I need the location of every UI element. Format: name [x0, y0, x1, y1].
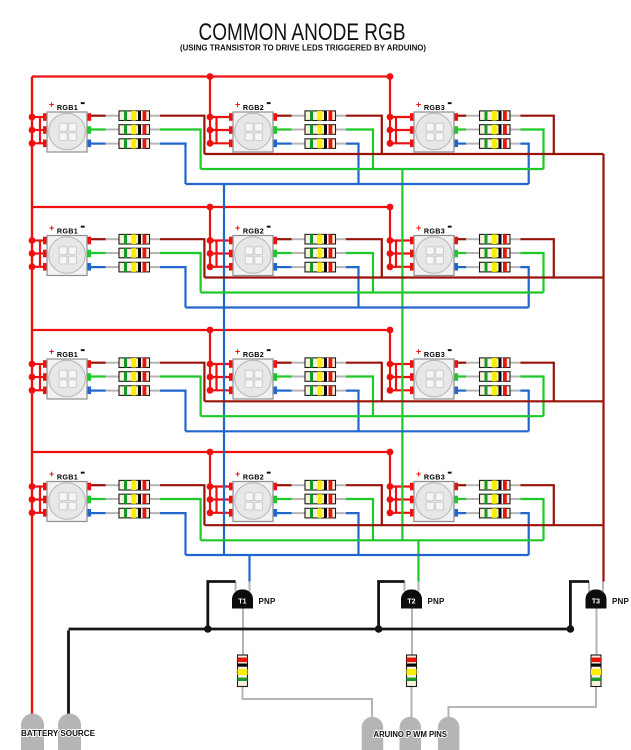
RGB LED module RGB1 (row 4): [43, 482, 91, 522]
RGB LED module RGB3 (row 1): [410, 112, 458, 152]
transistor T2 leads: [405, 582, 419, 656]
transistor T2 (PNP) body: [401, 589, 422, 608]
svg-text:RGB1: RGB1: [57, 226, 78, 235]
RGB LED module RGB1 (row 2): [43, 236, 91, 276]
wire: row 4 RGB1 blue-channel to bus: [160, 513, 186, 555]
wire: T2 base lead to arduino pad 2: [411, 687, 413, 719]
svg-text:+: +: [235, 100, 240, 110]
wire: T1 base lead to arduino pad 1: [243, 687, 373, 719]
RGB LED module RGB3 (row 2): [410, 236, 458, 276]
svg-text:+: +: [49, 469, 54, 479]
wire: row 1 RGB1 green-channel to bus: [160, 130, 201, 170]
wire: row 1 RGB2 green-channel to bus: [346, 130, 374, 170]
junction dots row 3 RGB1 anode: [29, 361, 36, 394]
wire: row 2 RGB3 red feed vertical: [389, 207, 391, 267]
wire: row 1 RGB3 anode pin connectors: [390, 116, 411, 118]
resistor R (red channel) row 2 RGB2: [277, 234, 346, 244]
wire: row 4 RGB1 anode pin connectors: [32, 485, 44, 487]
wire: row 4 red-channel bus: [204, 524, 603, 526]
svg-text:RGB1: RGB1: [57, 103, 78, 112]
RGB LED module RGB2 (row 2): [229, 236, 277, 276]
junction dot row 2 feed at RGB2: [207, 204, 214, 211]
svg-text:RGB3: RGB3: [424, 350, 445, 359]
svg-text:RGB3: RGB3: [424, 472, 445, 481]
resistor B (blue channel) row 3 RGB3: [458, 386, 521, 396]
label - minus marker RGB1 row 1: [81, 102, 85, 104]
svg-text:+: +: [416, 223, 421, 233]
wire: row 3 RGB2 blue-channel to bus: [346, 391, 359, 432]
resistor B (blue channel) row 3 RGB2: [277, 386, 346, 396]
wire: row 2 RGB3 blue-channel to bus: [520, 267, 529, 307]
wire: row 1 RGB2 blue-channel to bus: [346, 144, 359, 184]
wire: row 2 RGB2 red feed vertical: [209, 207, 211, 267]
resistor G (green channel) row 3 RGB1: [91, 372, 160, 382]
label - minus marker RGB1 row 2: [81, 226, 85, 228]
wire: row 1 RGB2 anode pin connectors: [210, 116, 230, 118]
wire: battery ground riser: [67, 630, 70, 716]
wire: row 4 RGB2 red feed vertical: [209, 452, 211, 513]
resistor G (green channel) row 2 RGB2: [277, 248, 346, 258]
junction dot row 2 feed at RGB3: [387, 204, 394, 211]
wire: row 4 RGB3 red-channel (maroon) to bus: [520, 485, 554, 525]
wire: row 3 RGB2 green-channel to bus: [346, 377, 374, 417]
wire: row 4 RGB1 green-channel to bus: [160, 499, 201, 540]
svg-text:+: +: [416, 469, 421, 479]
resistor B (blue channel) row 1 RGB1: [91, 139, 160, 149]
resistor R4 (T1 base) vertical: [238, 655, 248, 687]
resistor R (red channel) row 2 RGB1: [91, 234, 160, 244]
wire: row 2 red feed line: [32, 206, 390, 208]
wire: row 3 RGB1 anode pin connectors: [32, 363, 44, 365]
junction dot row 1 feed at RGB2: [207, 73, 214, 80]
junction dot row 3 feed at RGB3: [387, 327, 394, 334]
wire: row 1 RGB1 blue-channel to bus: [160, 144, 186, 184]
svg-text:T1: T1: [238, 599, 246, 606]
resistor G (green channel) row 3 RGB2: [277, 372, 346, 382]
junction dots row 2 RGB2 anode: [207, 237, 214, 270]
wire: row 3 RGB3 anode pin connectors: [390, 363, 411, 365]
wire: row 2 RGB1 anode ladder: [39, 241, 41, 267]
svg-text:+: +: [416, 100, 421, 110]
junction dot T2 emitter on bus: [375, 625, 383, 633]
wire: red channel main vertical (right side) to T3: [602, 154, 604, 582]
wire: row 1 red feed line: [32, 75, 390, 77]
wire: row 2 RGB1 anode pin connectors: [32, 239, 44, 241]
resistor G (green channel) row 4 RGB2: [277, 494, 346, 504]
wire: row 3 RGB3 red-channel (maroon) to bus: [520, 363, 554, 402]
resistor B (blue channel) row 2 RGB1: [91, 262, 160, 272]
wire: row 2 RGB3 anode ladder: [395, 241, 397, 267]
label - minus marker RGB1 row 3: [81, 349, 85, 351]
RGB LED module RGB1 (row 3): [43, 359, 91, 399]
wire: row 3 RGB2 anode ladder: [215, 364, 217, 390]
wire: row 2 RGB2 green-channel to bus: [346, 253, 374, 293]
resistor B (blue channel) row 4 RGB2: [277, 508, 346, 518]
wire: T2 emitter to ground bus: [379, 582, 405, 630]
wire: row 1 RGB2 red-channel (maroon) to bus: [346, 116, 382, 154]
wire: row 4 RGB3 anode ladder: [395, 487, 397, 513]
wire: row 3 green-channel bus: [201, 415, 544, 417]
svg-text:RGB3: RGB3: [424, 226, 445, 235]
battery source pad -: [58, 714, 81, 750]
svg-text:PNP: PNP: [259, 597, 277, 606]
wire: row 2 green-channel bus: [201, 291, 544, 293]
wire: row 3 RGB3 red feed vertical: [389, 330, 391, 390]
battery source pad +: [21, 714, 44, 750]
resistor R (red channel) row 1 RGB2: [277, 111, 346, 121]
resistor R (red channel) row 3 RGB2: [277, 358, 346, 368]
svg-text:RGB1: RGB1: [57, 472, 78, 481]
resistor R6 (T3 base) vertical: [591, 655, 601, 687]
wire: T3 base lead to arduino pad 3: [449, 687, 597, 719]
transistor T3 (PNP) body: [586, 589, 607, 608]
wire: row 4 RGB3 red feed vertical: [389, 452, 391, 513]
svg-text:+: +: [49, 223, 54, 233]
svg-text:RGB2: RGB2: [243, 350, 264, 359]
wire: row 2 RGB2 red-channel (maroon) to bus: [346, 239, 382, 277]
wire: row 3 RGB1 green-channel to bus: [160, 377, 201, 417]
svg-text:PNP: PNP: [428, 597, 446, 606]
resistor B (blue channel) row 4 RGB1: [91, 508, 160, 518]
wire: green channel drop into T2: [417, 540, 419, 581]
RGB LED module RGB2 (row 4): [229, 482, 277, 522]
wire: row 4 RGB2 blue-channel to bus: [346, 513, 359, 555]
wire: row 1 RGB1 anode pin connectors: [32, 116, 44, 118]
wire: row 3 RGB1 red-channel (maroon) to bus: [160, 363, 205, 402]
resistor R (red channel) row 3 RGB3: [458, 358, 521, 368]
junction dots row 3 RGB3 anode: [387, 361, 394, 394]
resistor B (blue channel) row 2 RGB3: [458, 262, 521, 272]
wire: row 3 RGB2 red feed vertical: [209, 330, 211, 390]
wire: row 2 RGB1 red-channel (maroon) to bus: [160, 239, 205, 277]
wire: black ground bus: [69, 628, 571, 631]
junction dots row 4 RGB1 anode: [29, 483, 36, 516]
wire: row 1 RGB2 red feed vertical: [209, 77, 211, 144]
svg-text:(USING TRANSISTOR TO DRIVE LED: (USING TRANSISTOR TO DRIVE LEDS TRIGGERE…: [180, 44, 426, 53]
resistor G (green channel) row 1 RGB1: [91, 125, 160, 135]
wire: row 2 red-channel bus: [204, 276, 603, 278]
wire: row 3 RGB1 anode ladder: [39, 364, 41, 390]
RGB LED module RGB2 (row 3): [229, 359, 277, 399]
svg-text:RGB2: RGB2: [243, 226, 264, 235]
wire: row 4 RGB2 anode pin connectors: [210, 485, 230, 487]
resistor R (red channel) row 3 RGB1: [91, 358, 160, 368]
resistor R5 (T2 base) vertical: [407, 655, 417, 687]
svg-text:COMMON ANODE RGB: COMMON ANODE RGB: [199, 19, 406, 46]
junction dots row 2 RGB3 anode: [387, 237, 394, 270]
wire: row 2 RGB1 blue-channel to bus: [160, 267, 186, 307]
junction dot T1 emitter on bus: [204, 625, 212, 633]
wire: row 4 RGB1 anode ladder: [39, 487, 41, 513]
wire: row 4 RGB3 anode pin connectors: [390, 485, 411, 487]
junction dots row 1 RGB2 anode: [207, 114, 214, 147]
resistor G (green channel) row 3 RGB3: [458, 372, 521, 382]
wire: blue channel main vertical to T1: [223, 184, 225, 555]
resistor B (blue channel) row 1 RGB2: [277, 139, 346, 149]
junction dot T3 emitter on bus: [567, 625, 575, 633]
transistor T1 leads: [236, 582, 250, 656]
junction dot row 3 feed at RGB2: [207, 327, 214, 334]
wire: T3 emitter to ground bus: [570, 582, 589, 630]
wire: row 1 RGB2 anode ladder: [215, 117, 217, 143]
label - minus marker RGB3 row 2: [448, 226, 452, 228]
arduino pwm pad 3: [438, 717, 460, 750]
RGB LED module RGB3 (row 3): [410, 359, 458, 399]
wire: row 3 RGB2 red-channel (maroon) to bus: [346, 363, 382, 402]
wire: row 2 RGB2 anode ladder: [215, 241, 217, 267]
svg-text:RGB2: RGB2: [243, 472, 264, 481]
resistor G (green channel) row 4 RGB1: [91, 494, 160, 504]
wire: row 1 RGB3 red-channel (maroon) to bus: [520, 116, 554, 154]
junction dots row 1 RGB1 anode: [29, 114, 36, 147]
resistor B (blue channel) row 2 RGB2: [277, 262, 346, 272]
resistor B (blue channel) row 1 RGB3: [458, 139, 521, 149]
wire: row 1 RGB3 anode ladder: [395, 117, 397, 143]
wire: row 3 RGB2 anode pin connectors: [210, 363, 230, 365]
label - minus marker RGB2 row 3: [267, 349, 271, 351]
wire: row 4 RGB3 green-channel to bus: [520, 499, 544, 540]
resistor R (red channel) row 2 RGB3: [458, 234, 521, 244]
wire: row 4 RGB1 red-channel (maroon) to bus: [160, 485, 205, 525]
resistor G (green channel) row 1 RGB2: [277, 125, 346, 135]
junction dots row 2 RGB1 anode: [29, 237, 36, 270]
RGB LED module RGB3 (row 4): [410, 482, 458, 522]
svg-text:BATTERY SOURCE: BATTERY SOURCE: [21, 729, 96, 738]
arduino pwm pad 1: [362, 717, 384, 750]
svg-text:+: +: [235, 469, 240, 479]
wire: row 3 RGB3 green-channel to bus: [520, 377, 544, 417]
wire: row 3 red-channel bus: [204, 400, 603, 402]
wire: row 3 blue-channel bus: [186, 430, 529, 432]
svg-text:+: +: [49, 100, 54, 110]
wire: row 2 RGB3 anode pin connectors: [390, 239, 411, 241]
wire: green channel main vertical to T2: [401, 169, 403, 540]
wire: row 1 blue-channel bus: [186, 183, 529, 185]
resistor R (red channel) row 4 RGB1: [91, 480, 160, 490]
wire: +V red bus from battery source up left side: [31, 77, 33, 717]
svg-text:+: +: [235, 223, 240, 233]
wire: T1 emitter to ground bus: [208, 582, 236, 630]
RGB LED module RGB1 (row 1): [43, 112, 91, 152]
wire: row 1 RGB1 anode ladder: [39, 117, 41, 143]
svg-text:+: +: [235, 347, 240, 357]
svg-text:+: +: [416, 347, 421, 357]
label - minus marker RGB2 row 2: [267, 226, 271, 228]
wire: blue channel drop into T1: [248, 555, 250, 582]
svg-text:RGB3: RGB3: [424, 103, 445, 112]
svg-text:RGB2: RGB2: [243, 103, 264, 112]
wire: row 1 RGB3 green-channel to bus: [520, 130, 544, 170]
junction dots row 4 RGB2 anode: [207, 483, 214, 516]
resistor B (blue channel) row 4 RGB3: [458, 508, 521, 518]
resistor R (red channel) row 1 RGB1: [91, 111, 160, 121]
wire: row 4 RGB3 blue-channel to bus: [520, 513, 529, 555]
wire: row 4 blue-channel bus: [186, 554, 529, 556]
svg-text:ARUINO P WM PINS: ARUINO P WM PINS: [374, 730, 448, 739]
resistor G (green channel) row 2 RGB1: [91, 248, 160, 258]
transistor T3 leads: [589, 582, 603, 656]
resistor G (green channel) row 1 RGB3: [458, 125, 521, 135]
svg-text:T2: T2: [407, 599, 415, 606]
junction dot row 1 feed at RGB3: [387, 73, 394, 80]
label - minus marker RGB3 row 4: [448, 472, 452, 474]
resistor B (blue channel) row 3 RGB1: [91, 386, 160, 396]
svg-text:+: +: [49, 347, 54, 357]
wire: row 1 RGB1 red-channel (maroon) to bus: [160, 116, 205, 154]
label - minus marker RGB3 row 3: [448, 349, 452, 351]
arduino pwm pad 2: [400, 717, 422, 750]
wire: row 1 RGB3 blue-channel to bus: [520, 144, 529, 184]
wire: row 1 RGB3 red feed vertical: [389, 77, 391, 144]
svg-text:T3: T3: [592, 599, 600, 606]
wire: row 4 RGB2 green-channel to bus: [346, 499, 374, 540]
junction dot row 4 feed at RGB3: [387, 449, 394, 456]
wire: row 2 RGB3 red-channel (maroon) to bus: [520, 239, 554, 277]
wire: row 3 RGB1 blue-channel to bus: [160, 391, 186, 432]
wire: row 4 green-channel bus: [201, 539, 544, 541]
wire: row 2 RGB1 green-channel to bus: [160, 253, 201, 293]
wire: row 3 RGB3 anode ladder: [395, 364, 397, 390]
wire: row 2 RGB2 blue-channel to bus: [346, 267, 359, 307]
wire: row 4 RGB2 anode ladder: [215, 487, 217, 513]
wire: row 1 green-channel bus: [201, 168, 544, 170]
resistor G (green channel) row 4 RGB3: [458, 494, 521, 504]
wire: row 1 red-channel bus: [204, 153, 603, 155]
wire: row 4 red feed line: [32, 451, 390, 453]
wire: row 2 RGB3 green-channel to bus: [520, 253, 544, 293]
transistor T1 (PNP) body: [232, 589, 253, 608]
svg-text:PNP: PNP: [612, 597, 630, 606]
RGB LED module RGB2 (row 1): [229, 112, 277, 152]
svg-text:RGB1: RGB1: [57, 350, 78, 359]
wire: row 4 RGB2 red-channel (maroon) to bus: [346, 485, 382, 525]
junction dots row 4 RGB3 anode: [387, 483, 394, 516]
junction dots row 3 RGB2 anode: [207, 361, 214, 394]
label - minus marker RGB2 row 1: [267, 102, 271, 104]
label - minus marker RGB1 row 4: [81, 472, 85, 474]
wire: row 3 RGB3 blue-channel to bus: [520, 391, 529, 432]
label - minus marker RGB2 row 4: [267, 472, 271, 474]
wire: row 3 red feed line: [32, 329, 390, 331]
resistor R (red channel) row 1 RGB3: [458, 111, 521, 121]
resistor R (red channel) row 4 RGB3: [458, 480, 521, 490]
junction dots row 1 RGB3 anode: [387, 114, 394, 147]
label - minus marker RGB3 row 1: [448, 102, 452, 104]
resistor R (red channel) row 4 RGB2: [277, 480, 346, 490]
wire: row 2 blue-channel bus: [186, 306, 529, 308]
wire: row 2 RGB2 anode pin connectors: [210, 239, 230, 241]
resistor G (green channel) row 2 RGB3: [458, 248, 521, 258]
junction dot row 4 feed at RGB2: [207, 449, 214, 456]
